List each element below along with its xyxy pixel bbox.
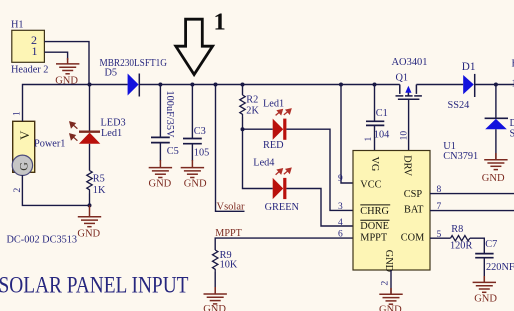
wire TVS to ground (495, 129, 497, 160)
ground GND (U1 pin2) (379, 288, 402, 304)
svg-text:MPPT: MPPT (360, 233, 388, 244)
wire R2 to LED node (242, 117, 244, 129)
wire / net MPPT (215, 228, 353, 250)
wire R9 to ground (214, 272, 216, 294)
wire main bus (139, 84, 400, 86)
capacitor C1 104 (366, 85, 389, 151)
svg-text:1K: 1K (93, 185, 106, 196)
svg-text:VCC: VCC (360, 180, 381, 191)
svg-text:GND: GND (474, 293, 497, 304)
wire VCC riser to U1 pin9 (341, 85, 353, 184)
wire Led4 cathode to U1 pin4 (286, 189, 353, 227)
svg-text:R5: R5 (93, 173, 105, 184)
svg-text:DRV: DRV (402, 155, 413, 176)
svg-text:Led4: Led4 (253, 158, 274, 169)
svg-text:1: 1 (214, 9, 226, 36)
svg-text:SOLAR PANEL INPUT: SOLAR PANEL INPUT (0, 273, 189, 299)
svg-text:2K: 2K (246, 106, 259, 117)
svg-text:D5: D5 (105, 68, 118, 79)
svg-text:DC-002 DC3513: DC-002 DC3513 (7, 234, 78, 245)
svg-text:AO3401: AO3401 (392, 57, 428, 68)
svg-text:104: 104 (374, 130, 389, 141)
wire node to Led1 anode (243, 128, 273, 130)
svg-text:2: 2 (380, 281, 390, 286)
ground GND (C3) (181, 160, 204, 178)
wire D1 to right edge (475, 84, 514, 86)
resistor R9 10K (213, 250, 238, 272)
IC U1 CN3791 (338, 131, 478, 286)
svg-text:RED: RED (263, 140, 284, 151)
node junction R5/Power (88, 203, 92, 207)
LED Led1 RED (263, 98, 291, 150)
svg-text:GND: GND (149, 179, 172, 190)
node junction R2/LEDs (241, 127, 245, 131)
svg-text:BAT: BAT (404, 205, 424, 216)
svg-text:4: 4 (338, 218, 343, 228)
wire Q1 gate to U1 DRV (408, 99, 410, 150)
wire R5 to junction (89, 194, 91, 206)
node junctions on bus (88, 83, 377, 87)
LED LED3 Led1 (70, 118, 126, 144)
diode TVS (partial label D/S at edge) (485, 118, 514, 140)
svg-text:D2: D2 (510, 118, 514, 129)
capacitor C5 100uF/35V (151, 85, 179, 162)
svg-text:C7: C7 (485, 239, 497, 250)
wire U1 pin2 to ground (390, 270, 392, 294)
svg-text:9: 9 (338, 174, 343, 184)
ground GND (TVS) (484, 153, 507, 170)
wire H1 pin1 to ground (44, 52, 67, 60)
wire node down to Led4 anode (243, 129, 273, 188)
svg-text:10K: 10K (220, 260, 238, 271)
wire / net Vsolar (216, 85, 245, 213)
svg-text:3: 3 (338, 202, 343, 212)
svg-text:R2: R2 (246, 94, 258, 105)
svg-text:C3: C3 (194, 126, 206, 137)
svg-text:CSP: CSP (404, 189, 423, 200)
wire R8 to C7 (470, 238, 485, 253)
svg-text:GND: GND (184, 179, 207, 190)
capacitor C7 220NF (475, 239, 514, 282)
svg-text:S9V: S9V (510, 129, 514, 140)
resistor R2 2K (240, 85, 260, 118)
wire Power1 pin2 to junction (22, 175, 89, 205)
diode D1 SS24 (448, 61, 476, 111)
connector Power1 (12, 111, 65, 193)
wire LED3 to R5 (89, 144, 91, 171)
svg-text:Led1: Led1 (101, 128, 122, 139)
ground GND (R9) (204, 287, 227, 304)
svg-text:C1: C1 (376, 108, 388, 119)
svg-text:SS24: SS24 (448, 100, 470, 111)
svg-text:GND: GND (482, 173, 505, 184)
svg-text:VG: VG (369, 157, 380, 172)
svg-text:Q1: Q1 (396, 73, 409, 84)
svg-text:G: G (16, 162, 30, 171)
svg-text:Vsolar: Vsolar (217, 202, 245, 213)
ground GND (H1) (56, 58, 79, 74)
ground GND (C7) (473, 276, 496, 292)
svg-text:2: 2 (13, 188, 23, 193)
svg-text:6: 6 (338, 229, 343, 239)
wire U1 pin5 COM to R8 (430, 237, 451, 239)
svg-text:CHRG: CHRG (360, 206, 389, 217)
svg-text:D1: D1 (462, 61, 476, 73)
svg-text:220NF: 220NF (486, 262, 514, 273)
wire Led1 cathode to U1 pin3 (286, 129, 353, 210)
svg-text:GREEN: GREEN (265, 202, 300, 213)
svg-text:DONE: DONE (360, 221, 389, 232)
svg-text:100uF/35V: 100uF/35V (164, 91, 175, 138)
svg-text:10: 10 (399, 131, 409, 141)
LED Led4 GREEN (253, 158, 299, 213)
svg-text:Header 2: Header 2 (11, 64, 48, 75)
header H1 (11, 19, 48, 75)
wire H1 pin2 to bus (44, 42, 89, 85)
svg-text:1: 1 (364, 137, 374, 142)
wire U1 pin8 CSP to edge (430, 193, 514, 195)
resistor R5 1K (87, 171, 106, 196)
ground GND (C5) (149, 160, 172, 178)
wire bus-left to Power1 pin1 (23, 85, 128, 122)
svg-text:V: V (17, 130, 32, 140)
svg-text:Led1: Led1 (263, 98, 284, 109)
svg-text:105: 105 (194, 147, 209, 158)
diode D5 MBR230LSFT1G (100, 58, 168, 97)
svg-text:Power1: Power1 (34, 138, 65, 149)
wire bus junction down to LED3 (89, 85, 91, 132)
node junction D1/TVS (494, 83, 498, 87)
svg-text:GND: GND (383, 250, 394, 273)
svg-text:H1: H1 (11, 19, 24, 30)
resistor R8 120R (450, 224, 472, 251)
wire U1 pin7 BAT to edge (430, 210, 514, 212)
svg-text:CN3791: CN3791 (443, 151, 478, 162)
svg-text:120R: 120R (450, 240, 472, 251)
ground GND (R5 branch) (78, 205, 101, 226)
svg-text:GND: GND (77, 228, 100, 239)
wire junction down to TVS (495, 85, 497, 119)
svg-text:COM: COM (401, 233, 424, 244)
svg-text:C5: C5 (167, 146, 179, 157)
svg-text:1: 1 (32, 44, 38, 58)
svg-text:1: 1 (13, 111, 23, 116)
capacitor C3 105 (183, 85, 209, 162)
transistor Q1 AO3401 (392, 57, 428, 99)
svg-text:LED3: LED3 (101, 118, 126, 129)
wire Q1 drain to D1 (416, 84, 463, 86)
svg-text:R8: R8 (451, 224, 463, 235)
symbol sheet-entry arrow 1 (176, 9, 226, 75)
svg-text:GND: GND (203, 304, 226, 311)
svg-text:GND: GND (379, 304, 402, 311)
